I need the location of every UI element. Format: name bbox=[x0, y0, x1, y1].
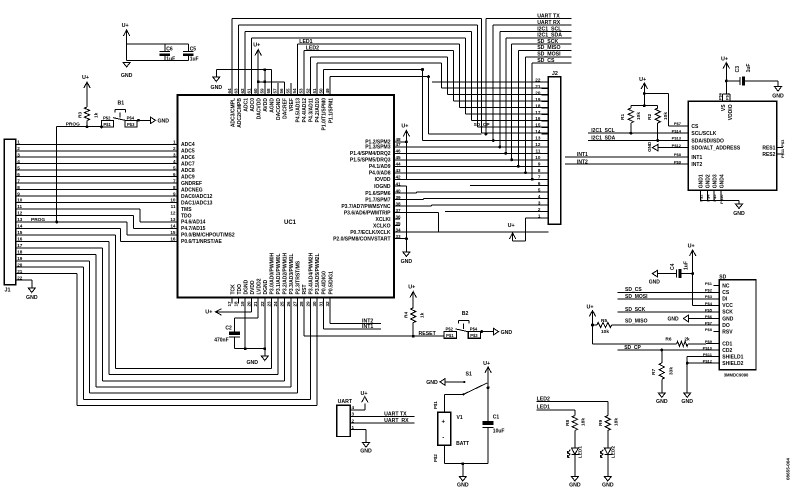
J1 pin 18 bbox=[16, 253, 24, 255]
J1 pin 13 bbox=[16, 221, 24, 223]
svg-text:24: 24 bbox=[273, 301, 278, 307]
connector J2 bbox=[548, 77, 560, 225]
node R7 on SD_CP bbox=[660, 349, 663, 352]
J1 pin 17 bbox=[16, 247, 24, 249]
J1 pin 5 bbox=[16, 169, 24, 171]
svg-text:P0.6/T1/NRST/AE: P0.6/T1/NRST/AE bbox=[181, 239, 223, 245]
wire UC1 top pin col4 over to J2-17 bbox=[251, 38, 253, 89]
svg-text:P4.7/AD15: P4.7/AD15 bbox=[181, 226, 206, 232]
svg-text:15: 15 bbox=[17, 230, 23, 235]
UC1 top pin 54 P4.5/AD13 bbox=[296, 89, 298, 95]
svg-text:16: 16 bbox=[170, 237, 176, 242]
wire UC1 pin39 to J2-4 bbox=[394, 199, 423, 201]
UC1 bottom pin 17 TCK bbox=[231, 298, 233, 304]
svg-text:RSV: RSV bbox=[722, 329, 733, 335]
svg-text:470nF: 470nF bbox=[214, 338, 228, 344]
wire analog V+ rail bbox=[258, 81, 284, 83]
J2 pin 19 bbox=[541, 101, 548, 103]
svg-text:INT1: INT1 bbox=[362, 324, 373, 330]
svg-text:IOGND: IOGND bbox=[374, 184, 391, 190]
svg-text:10k: 10k bbox=[601, 329, 609, 335]
wire UART RX bbox=[357, 422, 415, 424]
svg-text:GND: GND bbox=[501, 330, 513, 336]
svg-text:4: 4 bbox=[173, 159, 176, 164]
wire J2-22 stub bbox=[432, 81, 548, 83]
svg-text:18k: 18k bbox=[580, 418, 586, 426]
wire C2 ground rail bbox=[234, 348, 264, 350]
svg-text:GND: GND bbox=[247, 360, 259, 366]
wire J1-3 to UC1-3 bbox=[24, 156, 178, 158]
UC1 top pin 60 DACVDD bbox=[257, 89, 259, 95]
svg-text:39: 39 bbox=[396, 195, 402, 200]
svg-text:47: 47 bbox=[396, 142, 402, 147]
J2 pin 20 bbox=[541, 94, 548, 96]
svg-text:P0.0/BM/CHPOUT/MS2: P0.0/BM/CHPOUT/MS2 bbox=[181, 233, 235, 239]
wire J1-14 jog to UC1-16 bbox=[24, 227, 121, 229]
UC1 top pin 50 P1.0/T1/SPM0 bbox=[323, 89, 325, 95]
svg-text:13: 13 bbox=[170, 217, 176, 222]
svg-text:RESET: RESET bbox=[419, 331, 437, 337]
node shield join bbox=[686, 362, 689, 365]
resistor R7 33k bbox=[661, 350, 663, 363]
J2 pin 5 bbox=[541, 191, 548, 193]
J1 pin 11 bbox=[16, 208, 24, 210]
svg-text:U+: U+ bbox=[122, 23, 129, 29]
svg-text:VCC: VCC bbox=[722, 303, 733, 309]
svg-text:RES2: RES2 bbox=[762, 152, 775, 158]
svg-text:14: 14 bbox=[535, 129, 541, 134]
supply V+ to J2 pin 1 bbox=[526, 217, 549, 219]
svg-text:1: 1 bbox=[173, 140, 176, 145]
svg-text:1: 1 bbox=[538, 213, 541, 218]
svg-text:P$8: P$8 bbox=[705, 327, 713, 332]
J2 pin 2 bbox=[541, 211, 548, 213]
svg-text:GND: GND bbox=[656, 399, 668, 405]
svg-text:6: 6 bbox=[538, 181, 541, 186]
B2 blade bbox=[456, 329, 470, 332]
svg-text:-: - bbox=[442, 436, 444, 442]
J1 pin 15 bbox=[16, 234, 24, 236]
microcontroller UC1 bbox=[178, 95, 395, 298]
wire J1-16 stub bbox=[24, 240, 109, 242]
svg-text:R6: R6 bbox=[665, 337, 671, 343]
svg-text:TCK: TCK bbox=[230, 284, 236, 295]
wire VCC to U2 bbox=[693, 304, 720, 306]
svg-text:P3.5/AD5/PWM2L: P3.5/AD5/PWM2L bbox=[315, 253, 321, 294]
svg-text:SD_MISO: SD_MISO bbox=[625, 319, 648, 325]
svg-text:GND4: GND4 bbox=[719, 174, 725, 188]
wire UC1 pin37 jog down bbox=[394, 212, 439, 214]
svg-text:1k: 1k bbox=[419, 312, 425, 318]
svg-text:+: + bbox=[442, 420, 446, 426]
svg-text:P$1: P$1 bbox=[103, 122, 111, 127]
svg-text:R7: R7 bbox=[651, 369, 657, 375]
svg-text:P2.3/TRST/MS: P2.3/TRST/MS bbox=[296, 260, 302, 294]
svg-text:P4.4/AD12: P4.4/AD12 bbox=[302, 98, 308, 123]
UC1 top pin 62 ADC1 bbox=[244, 89, 246, 95]
svg-text:TDO: TDO bbox=[181, 213, 192, 219]
svg-text:17: 17 bbox=[535, 110, 541, 115]
ground right of B2 bbox=[494, 328, 499, 334]
svg-text:17: 17 bbox=[227, 301, 232, 307]
svg-text:56: 56 bbox=[279, 88, 284, 94]
svg-text:UC1: UC1 bbox=[284, 220, 297, 226]
wire J1-13 PROG jog to UC1-15 bbox=[24, 221, 127, 223]
J1 pin 20 bbox=[16, 266, 24, 268]
svg-text:SHIELD1: SHIELD1 bbox=[722, 354, 743, 360]
svg-text:P0.4/DIG0: P0.4/DIG0 bbox=[322, 271, 328, 295]
svg-text:J1: J1 bbox=[5, 288, 11, 294]
svg-text:9: 9 bbox=[17, 191, 20, 196]
svg-text:53: 53 bbox=[299, 88, 304, 94]
U3 pin VS bbox=[722, 95, 724, 101]
svg-text:P1.7/SPM7: P1.7/SPM7 bbox=[365, 198, 391, 204]
UC1 top pin 53 P4.4/AD12 bbox=[303, 89, 305, 95]
ground below C6/C5 rail bbox=[123, 63, 130, 68]
svg-text:P3.2/AD2/PWM1H: P3.2/AD2/PWM1H bbox=[283, 252, 289, 294]
svg-text:9: 9 bbox=[173, 191, 176, 196]
svg-text:4: 4 bbox=[17, 159, 20, 164]
svg-text:22: 22 bbox=[17, 275, 23, 280]
UC1 bottom pin 22 DGND bbox=[264, 298, 266, 304]
svg-text:LED2: LED2 bbox=[610, 446, 616, 459]
svg-text:P4.1/AD9: P4.1/AD9 bbox=[369, 164, 391, 170]
svg-text:12: 12 bbox=[17, 211, 23, 216]
svg-text:DACVDD: DACVDD bbox=[256, 98, 262, 120]
J1 pin 8 bbox=[16, 189, 24, 191]
wire UC1 top col15 to J2-13 bbox=[323, 70, 325, 90]
svg-text:U+: U+ bbox=[639, 77, 646, 83]
svg-text:35: 35 bbox=[396, 221, 402, 226]
svg-text:10: 10 bbox=[17, 198, 23, 203]
U2 pin P$11 SHIELD1 bbox=[713, 356, 719, 358]
U3 pin VDDIO bbox=[729, 95, 731, 101]
B1 blade bbox=[113, 118, 127, 121]
svg-text:P1.3/SPM3: P1.3/SPM3 bbox=[365, 145, 391, 151]
svg-text:P$8: P$8 bbox=[674, 152, 682, 157]
svg-text:LED1: LED1 bbox=[299, 39, 312, 45]
svg-text:P$1: P$1 bbox=[725, 92, 730, 100]
ground C4 bbox=[652, 270, 657, 276]
svg-text:GND: GND bbox=[401, 259, 413, 265]
svg-text:P$6: P$6 bbox=[717, 92, 722, 100]
J2 pin 18 bbox=[541, 107, 548, 109]
svg-text:NC: NC bbox=[722, 284, 730, 290]
svg-text:40: 40 bbox=[396, 188, 402, 193]
svg-text:21: 21 bbox=[253, 301, 258, 307]
svg-text:42: 42 bbox=[396, 174, 402, 179]
svg-text:64: 64 bbox=[227, 88, 232, 94]
svg-text:VS: VS bbox=[721, 104, 727, 111]
svg-text:23: 23 bbox=[266, 301, 271, 307]
svg-text:B1: B1 bbox=[118, 101, 125, 107]
wire UC1 pin40 to J2-5 bbox=[394, 192, 416, 194]
svg-text:U+: U+ bbox=[82, 75, 89, 81]
wire J1-1 to UC1-1 bbox=[24, 143, 178, 145]
wire UC1 top pin col12 over to J2-19 bbox=[303, 50, 305, 89]
svg-text:U+: U+ bbox=[408, 285, 415, 291]
svg-text:DACREF: DACREF bbox=[283, 98, 289, 119]
svg-text:20: 20 bbox=[535, 90, 541, 95]
svg-text:22: 22 bbox=[535, 77, 541, 82]
svg-text:DACGND: DACGND bbox=[276, 98, 282, 120]
wire bus J1-18 to UC1 bottom bbox=[24, 253, 96, 255]
svg-text:16: 16 bbox=[17, 237, 23, 242]
svg-text:34: 34 bbox=[396, 227, 402, 232]
J2 pin 4 bbox=[541, 198, 548, 200]
U3 pin P$7 CS bbox=[682, 125, 688, 127]
wire V+ to caps rail bbox=[126, 38, 128, 61]
svg-text:P$4: P$4 bbox=[470, 327, 478, 332]
svg-text:1k: 1k bbox=[94, 112, 100, 118]
svg-text:50: 50 bbox=[318, 88, 323, 94]
svg-text:GND: GND bbox=[681, 399, 693, 405]
wire UC1 top pin col13 over to J2-20 bbox=[309, 57, 311, 89]
svg-text:19: 19 bbox=[17, 256, 23, 261]
wire SHIELD1/SHIELD2 to ground bbox=[687, 356, 719, 358]
svg-text:P3.6/AD6/PWMTRIP: P3.6/AD6/PWMTRIP bbox=[344, 211, 391, 217]
capacitor C5 bbox=[187, 44, 189, 51]
svg-text:GND: GND bbox=[602, 483, 614, 489]
wire UC1 top pin col14 over to J2-21 bbox=[316, 63, 318, 89]
J2 pin 15 bbox=[541, 126, 548, 128]
wire UC1 pin48 stub bbox=[394, 141, 406, 143]
svg-text:25: 25 bbox=[279, 301, 284, 307]
svg-text:ADC4: ADC4 bbox=[181, 142, 195, 148]
ground shields bbox=[684, 393, 691, 398]
svg-text:P$1: P$1 bbox=[705, 281, 713, 286]
svg-text:4: 4 bbox=[538, 194, 541, 199]
wire J1-7 to UC1-7 bbox=[24, 182, 178, 184]
resistor R9 18k bbox=[605, 416, 610, 431]
ground analog rail bbox=[215, 70, 217, 77]
U3 pin P$14 SCL/SCLK bbox=[682, 132, 688, 134]
svg-text:10: 10 bbox=[535, 155, 541, 160]
svg-text:U+: U+ bbox=[401, 124, 408, 130]
wire V+ rail to C3 bbox=[726, 80, 740, 82]
svg-text:RES1: RES1 bbox=[762, 145, 775, 151]
svg-text:P3.3/AD3/PWM1L: P3.3/AD3/PWM1L bbox=[289, 253, 295, 294]
svg-text:VREF: VREF bbox=[289, 98, 295, 111]
U3 pin RES1 bbox=[777, 147, 783, 149]
svg-text:10uF: 10uF bbox=[493, 429, 505, 435]
svg-text:U+: U+ bbox=[253, 43, 260, 49]
svg-text:61: 61 bbox=[246, 88, 251, 94]
UC1 bottom pin 25 P3.2/AD2/PWM1H bbox=[283, 298, 285, 304]
svg-text:26: 26 bbox=[286, 301, 291, 307]
svg-text:TMS: TMS bbox=[181, 207, 192, 213]
U3 pin P$5 GND3 bbox=[713, 190, 715, 200]
svg-text:ADC1: ADC1 bbox=[243, 98, 249, 112]
J1 pin 2 bbox=[16, 150, 24, 152]
svg-text:5: 5 bbox=[17, 165, 20, 170]
svg-text:2: 2 bbox=[173, 146, 176, 151]
resistor R3 1k bbox=[86, 90, 88, 108]
wire J1-11 jog to UC1-13 bbox=[24, 208, 140, 210]
UART pin 2 bbox=[350, 422, 356, 424]
wire J1-12 jog to UC1-14 bbox=[24, 214, 134, 216]
UC1 top pin 57 DACGND bbox=[277, 89, 279, 95]
svg-text:INT2: INT2 bbox=[362, 318, 373, 324]
svg-text:3: 3 bbox=[538, 200, 541, 205]
svg-text:60: 60 bbox=[253, 88, 258, 94]
wire UART pin1 to ground bbox=[357, 429, 367, 431]
node S1 to V+ rail bbox=[487, 386, 490, 389]
svg-text:14: 14 bbox=[17, 224, 23, 229]
svg-text:46: 46 bbox=[396, 149, 402, 154]
svg-text:LVDD2: LVDD2 bbox=[256, 278, 262, 294]
wire DVDD down bbox=[251, 304, 253, 312]
U2 pin P$8 RSV bbox=[713, 331, 719, 333]
U3 pin RES2 bbox=[777, 153, 783, 155]
svg-text:AVDD: AVDD bbox=[263, 98, 269, 112]
wire caps bottom rail bbox=[127, 60, 189, 62]
U3 pin P$13 SDA/SDI/SDO bbox=[682, 139, 688, 141]
J2 pin 11 bbox=[541, 152, 548, 154]
svg-text:31: 31 bbox=[319, 301, 324, 307]
svg-text:P3.4/AD4/PWM2H: P3.4/AD4/PWM2H bbox=[309, 252, 315, 294]
wire R6 to CD1 bbox=[688, 343, 706, 345]
svg-text:U+: U+ bbox=[587, 304, 594, 310]
svg-text:SHIELD2: SHIELD2 bbox=[722, 361, 743, 367]
svg-text:4: 4 bbox=[352, 405, 355, 410]
ground right of B1 bbox=[151, 117, 156, 123]
wire UC1 right pin 45 to J2-10 bbox=[394, 159, 548, 161]
svg-text:BATT: BATT bbox=[456, 441, 469, 447]
svg-text:AGND: AGND bbox=[269, 98, 275, 113]
accelerometer U3 bbox=[688, 101, 776, 190]
ground LED1 bbox=[571, 477, 578, 482]
UC1 top pin 59 AVDD bbox=[264, 89, 266, 95]
wire UC1 right pin 43 to J2-8 bbox=[394, 172, 548, 174]
U3 pin P$2 GND1 bbox=[700, 190, 702, 200]
svg-text:GND: GND bbox=[211, 85, 223, 91]
connector J1 bbox=[4, 139, 15, 284]
UC1 bottom pin 18 TDO bbox=[238, 298, 240, 304]
svg-text:P$9: P$9 bbox=[674, 159, 682, 164]
svg-text:R3: R3 bbox=[78, 112, 84, 118]
svg-text:S1: S1 bbox=[466, 372, 472, 378]
UC1 top pin 49 P1.1/SPM1 bbox=[329, 89, 331, 95]
svg-text:2: 2 bbox=[352, 418, 355, 423]
svg-text:P1.5/SPM5/DRQ3: P1.5/SPM5/DRQ3 bbox=[350, 158, 391, 164]
wire LVDD loop to C2 bbox=[257, 304, 259, 318]
svg-text:C6: C6 bbox=[166, 46, 173, 52]
J1 pin 22 bbox=[16, 279, 24, 281]
svg-text:3MMDC9090: 3MMDC9090 bbox=[724, 373, 749, 378]
wire R1/R2 top rail bbox=[631, 105, 658, 107]
svg-text:6: 6 bbox=[173, 172, 176, 177]
svg-text:16: 16 bbox=[535, 116, 541, 121]
svg-text:30: 30 bbox=[312, 301, 317, 307]
wire UC1 right pin 44 to J2-9 bbox=[394, 165, 548, 167]
svg-text:P$14: P$14 bbox=[672, 128, 682, 133]
node R2 on SDA bbox=[656, 139, 659, 142]
svg-text:GND: GND bbox=[26, 295, 38, 301]
wire bus J1-20 to UC1 bottom bbox=[24, 266, 84, 268]
J1 pin 19 bbox=[16, 260, 24, 262]
node battery ground bbox=[461, 462, 464, 465]
node R4-RESET bbox=[412, 335, 415, 338]
svg-text:18: 18 bbox=[535, 103, 541, 108]
svg-text:6: 6 bbox=[17, 172, 20, 177]
U2 pin P$9 CD1 bbox=[713, 343, 719, 345]
wire analog GND rail bbox=[216, 69, 271, 71]
ground U3 bbox=[736, 204, 743, 209]
svg-text:U+: U+ bbox=[508, 223, 515, 229]
U3 pin P$8 INT1 bbox=[682, 156, 688, 158]
U2 pin P$6 GND bbox=[713, 318, 719, 320]
svg-text:SD_CP: SD_CP bbox=[474, 122, 491, 128]
svg-text:P$3: P$3 bbox=[470, 333, 478, 338]
wire DGND col22 to ground bbox=[264, 304, 266, 357]
svg-text:17: 17 bbox=[17, 243, 23, 248]
wire INT2 from UC1 bbox=[329, 304, 331, 324]
svg-text:V1: V1 bbox=[457, 415, 463, 421]
node R3-PROG bbox=[86, 125, 89, 128]
U2 pin P$5 SCK bbox=[713, 311, 719, 313]
svg-text:8: 8 bbox=[173, 185, 176, 190]
svg-text:GND: GND bbox=[569, 483, 581, 489]
node R5 V+ bbox=[591, 324, 594, 327]
wire UC1 top pin col1 over to J2-14 bbox=[231, 19, 233, 89]
wire B2 to ground bbox=[480, 331, 493, 333]
J2 pin 21 bbox=[541, 88, 548, 90]
svg-text:GND: GND bbox=[647, 141, 652, 152]
UC1 bottom pin 29 P3.4/AD4/PWM2H bbox=[309, 298, 311, 304]
svg-text:XCLKI: XCLKI bbox=[376, 217, 392, 223]
wire UC1 right pin 47 to J2-12 bbox=[394, 146, 548, 148]
svg-text:CS: CS bbox=[722, 290, 730, 296]
svg-text:32: 32 bbox=[325, 301, 330, 307]
UC1 bottom pin 21 LVDD2 bbox=[257, 298, 259, 304]
resistor R1 10k bbox=[628, 108, 633, 123]
svg-text:U+: U+ bbox=[483, 361, 490, 367]
UC1 bottom pin 31 P0.4/DIG0 bbox=[323, 298, 325, 304]
svg-text:DI: DI bbox=[722, 297, 728, 303]
svg-text:15: 15 bbox=[535, 123, 541, 128]
svg-text:P$12: P$12 bbox=[672, 143, 682, 148]
svg-text:IOVDD: IOVDD bbox=[375, 177, 391, 183]
svg-text:10k: 10k bbox=[636, 112, 642, 120]
svg-text:C1: C1 bbox=[493, 415, 500, 421]
svg-text:11: 11 bbox=[171, 204, 176, 209]
svg-text:P1.1/SPM1: P1.1/SPM1 bbox=[328, 98, 334, 124]
wire bus J1-17 to UC1 bottom bbox=[24, 247, 103, 249]
U2 pin P$7 DO bbox=[713, 324, 719, 326]
ground below J1 bbox=[28, 288, 35, 293]
svg-text:GND: GND bbox=[158, 119, 170, 125]
J2 pin 12 bbox=[541, 146, 548, 148]
svg-text:55: 55 bbox=[286, 88, 291, 94]
U3 pin P$9 INT2 bbox=[682, 163, 688, 165]
svg-text:R1: R1 bbox=[620, 114, 626, 120]
svg-text:RST: RST bbox=[302, 285, 308, 295]
U2 pin P$3 DI bbox=[713, 298, 719, 300]
svg-text:11: 11 bbox=[536, 149, 541, 154]
svg-text:8: 8 bbox=[538, 168, 541, 173]
UC1 top pin 61 ADC0 bbox=[251, 89, 253, 95]
svg-text:SCL/SCLK: SCL/SCLK bbox=[691, 131, 716, 137]
svg-text:DO: DO bbox=[722, 323, 730, 329]
svg-text:P4.5/AD13: P4.5/AD13 bbox=[296, 98, 302, 123]
svg-text:C5: C5 bbox=[190, 46, 197, 52]
wire U2 GND pin bbox=[688, 318, 719, 320]
resistor R8 18k bbox=[572, 416, 577, 431]
svg-text:GNDREF: GNDREF bbox=[181, 181, 202, 187]
wire J1 pin22 to ground bbox=[24, 279, 32, 281]
LED LED1 bbox=[571, 448, 578, 455]
